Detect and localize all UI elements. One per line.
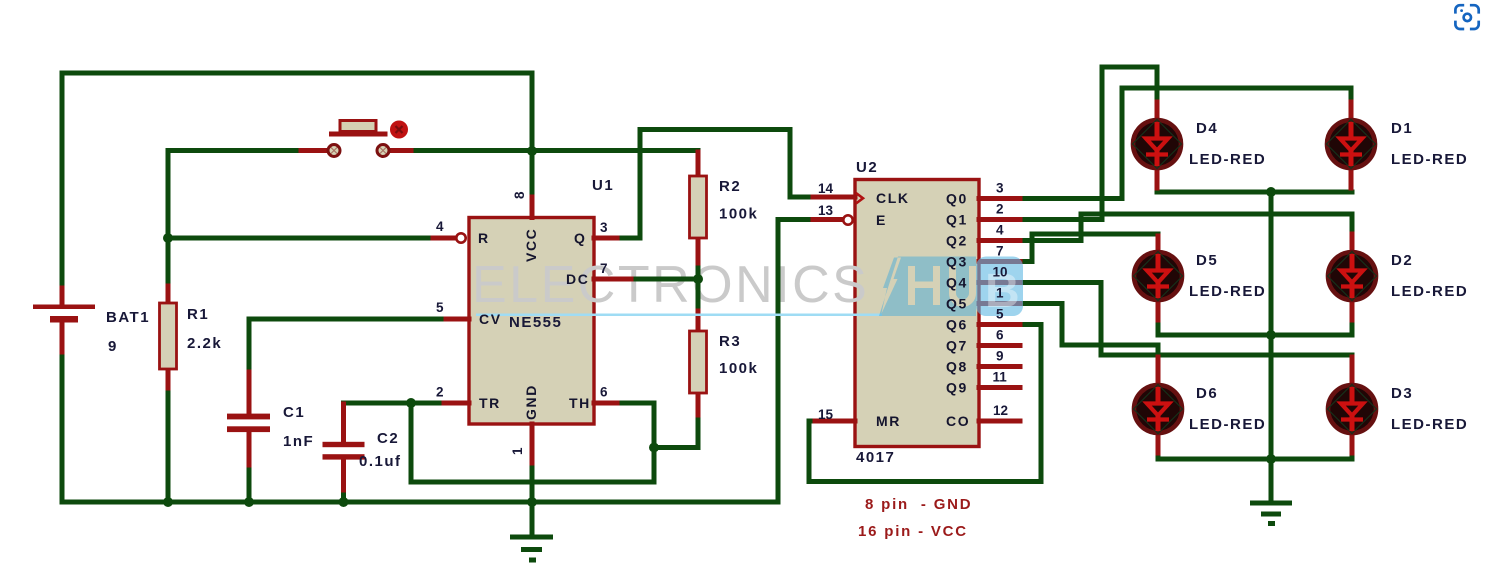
- svg-text:9: 9: [108, 338, 118, 355]
- wire D2 cathode to row2 bus: [1350, 318, 1355, 335]
- wire TR junction down and right to TH junction: [411, 403, 654, 482]
- svg-text:VCC: VCC: [523, 228, 539, 262]
- pin stub 4017 pin2 Q1: [979, 217, 1020, 222]
- ground under 555: [510, 535, 553, 563]
- wire 555 pin6 TH to junction: [616, 403, 654, 448]
- pin stub D2 anode: [1350, 234, 1355, 252]
- svg-text:R2: R2: [719, 178, 741, 195]
- wire 555 pin2 TR to C2 top: [344, 403, 446, 406]
- pin stub R3 top: [696, 311, 701, 331]
- wire R1 bottom to bus: [166, 386, 171, 502]
- svg-text:CLK: CLK: [876, 190, 910, 206]
- svg-text:4: 4: [436, 219, 444, 234]
- svg-text:16 pin - VCC: 16 pin - VCC: [858, 523, 968, 540]
- 4017 CLK edge triangle: [856, 193, 863, 204]
- svg-text:2: 2: [436, 385, 444, 400]
- wire Q4 pin10 to D3 anode: [1019, 283, 1352, 370]
- wire VCC top rail from battery to 555: [62, 73, 532, 290]
- svg-text:D3: D3: [1391, 385, 1413, 402]
- svg-text:11: 11: [993, 370, 1008, 385]
- svg-text:C2: C2: [377, 430, 399, 447]
- wire LED row3 cathode bus: [1158, 457, 1352, 462]
- junction bus C2: [339, 497, 349, 507]
- svg-text:4: 4: [996, 223, 1004, 238]
- wire 555 pin3 Q up over to 4017 CLK: [616, 130, 814, 239]
- pin stub D5 anode: [1156, 236, 1161, 252]
- pin stub 4017 pin12 CO: [979, 419, 1020, 424]
- pin stub D1 anode: [1349, 102, 1354, 120]
- svg-text:R: R: [478, 230, 490, 246]
- svg-text:D1: D1: [1391, 120, 1413, 137]
- pin stub 4017 pin5 Q6: [979, 322, 1020, 327]
- pin stub D3 cathode: [1350, 433, 1355, 453]
- wire C2 bottom to bus: [341, 489, 346, 502]
- pin stub battery minus: [60, 322, 65, 352]
- svg-text:E: E: [876, 212, 887, 228]
- svg-text:2: 2: [996, 202, 1004, 217]
- svg-text:14: 14: [818, 181, 834, 196]
- pin stub C1 top: [247, 372, 252, 415]
- pin stub R1 bottom: [166, 368, 171, 388]
- pin stub button left: [301, 148, 327, 153]
- svg-text:LED-RED: LED-RED: [1189, 151, 1266, 168]
- pin stub D6 cathode: [1156, 433, 1161, 453]
- wire VCC node to R2 top: [532, 151, 698, 177]
- pin stub 555 pin1 GND: [530, 424, 535, 463]
- screenshot icon top right: [1455, 5, 1478, 29]
- svg-text:7: 7: [600, 261, 608, 276]
- svg-text:D4: D4: [1196, 120, 1218, 137]
- svg-text:5: 5: [436, 300, 444, 315]
- pin stub D6 anode: [1156, 357, 1161, 385]
- svg-text:LED-RED: LED-RED: [1391, 283, 1468, 300]
- wire D1 cathode to row1 bus: [1349, 186, 1354, 192]
- svg-text:100k: 100k: [719, 206, 758, 223]
- 555 pin4 R inversion bubble: [456, 233, 465, 242]
- junction LED row2: [1266, 330, 1276, 340]
- pin stub R3 bottom: [696, 393, 701, 415]
- pin stub 4017 pin10 Q4: [979, 280, 1020, 285]
- junction TH/R3 node: [649, 443, 659, 453]
- resistor R3: [690, 331, 707, 393]
- svg-text:100k: 100k: [719, 360, 758, 377]
- svg-text:3: 3: [996, 181, 1004, 196]
- pin stub button right: [390, 148, 411, 153]
- pin stub 4017 pin7 Q3: [979, 259, 1020, 264]
- wire 4017 MR pin15 loop to Q6 pin5: [809, 325, 1041, 482]
- wire reset node to 555 pin 4: [168, 236, 434, 241]
- svg-text:Q: Q: [574, 230, 587, 246]
- pin stub 4017 pin14 CLK: [813, 195, 855, 200]
- LED D1: [1327, 120, 1376, 169]
- pin stub 555 pin8 VCC: [530, 197, 535, 218]
- wire R3 bottom to TH junction: [654, 413, 698, 448]
- pin stub 4017 pin6 Q7: [979, 343, 1020, 348]
- svg-text:13: 13: [818, 203, 834, 218]
- pin stub 555 pin2 TR: [444, 401, 469, 406]
- watermark ELECTRONICS: [472, 256, 869, 314]
- svg-text:7: 7: [996, 244, 1004, 259]
- pin stub R1 top: [166, 286, 171, 304]
- resistor R1: [160, 303, 177, 369]
- svg-text:TR: TR: [479, 395, 501, 411]
- svg-text:R3: R3: [719, 333, 741, 350]
- pin stub C2 bottom: [341, 458, 346, 490]
- pin stub 555 pin7 DC: [594, 277, 631, 282]
- svg-text:4017: 4017: [856, 449, 895, 466]
- svg-text:Q3: Q3: [946, 254, 968, 270]
- pin stub D2 cathode: [1350, 300, 1355, 320]
- svg-text:Q2: Q2: [946, 233, 968, 249]
- svg-text:R1: R1: [187, 306, 209, 323]
- pin stub 4017 pin9 Q8: [979, 364, 1020, 369]
- svg-text:Q9: Q9: [946, 380, 968, 396]
- svg-text:D6: D6: [1196, 385, 1218, 402]
- svg-text:1: 1: [510, 447, 525, 455]
- junction TR node: [406, 398, 416, 408]
- svg-text:15: 15: [818, 407, 834, 422]
- wire LED center ground drop: [1269, 192, 1274, 502]
- pin stub battery plus: [60, 288, 65, 306]
- svg-text:DC: DC: [566, 271, 589, 287]
- svg-text:8 pin - GND: 8 pin - GND: [865, 496, 972, 513]
- wire C1 bottom to bus: [247, 463, 252, 502]
- wire Q2 pin4 to D2 anode: [1019, 214, 1352, 241]
- pin stub 4017 pin15 MR: [815, 419, 855, 424]
- svg-text:6: 6: [600, 385, 608, 400]
- SECTION: watermark logo: [476, 257, 1023, 319]
- svg-text:NE555: NE555: [509, 314, 562, 331]
- pin stub 4017 pin3 Q0: [979, 196, 1020, 201]
- svg-text:LED-RED: LED-RED: [1189, 416, 1266, 433]
- pin stub 4017 pin4 Q2: [979, 238, 1020, 243]
- svg-text:Q6: Q6: [946, 317, 968, 333]
- pushbutton red actuator marker: [390, 121, 408, 139]
- svg-text:Q1: Q1: [946, 212, 968, 228]
- svg-text:Q8: Q8: [946, 359, 968, 375]
- svg-text:ELECTRONICS: ELECTRONICS: [472, 256, 869, 314]
- svg-text:BAT1: BAT1: [106, 309, 150, 326]
- wire Q1 pin2 to D4 anode: [1019, 67, 1157, 220]
- svg-text:Q4: Q4: [946, 275, 968, 291]
- svg-text:LED-RED: LED-RED: [1189, 283, 1266, 300]
- SECTION: labels: [106, 120, 1468, 540]
- pin stub D4 cathode: [1155, 168, 1160, 188]
- battery BAT1: [33, 305, 95, 323]
- svg-text:LED-RED: LED-RED: [1391, 151, 1468, 168]
- svg-text:Q7: Q7: [946, 338, 968, 354]
- pin stub 4017 pin13 E: [813, 217, 843, 222]
- svg-text:LED-RED: LED-RED: [1391, 416, 1468, 433]
- pin stub 4017 pin11 Q9: [979, 385, 1020, 390]
- resistor R2: [690, 176, 707, 238]
- pin stub C2 top: [341, 404, 346, 443]
- wire 555 pin1 GND to ground: [530, 461, 535, 535]
- LED D2: [1328, 252, 1377, 301]
- wire battery minus to ground bus: [62, 351, 778, 502]
- wire D6 cathode to row3 bus: [1156, 451, 1161, 459]
- LED D6: [1134, 385, 1183, 434]
- junction DC/R2/R3 node: [693, 274, 703, 284]
- wire VCC down to 555 pin 8: [530, 151, 535, 199]
- wire Q0 pin3 to D1 anode: [1019, 88, 1351, 199]
- LED D3: [1328, 385, 1377, 434]
- svg-text:1nF: 1nF: [283, 433, 314, 450]
- pin stub D5 cathode: [1156, 300, 1161, 320]
- pin stub R2 top: [696, 152, 701, 177]
- svg-text:D5: D5: [1196, 252, 1218, 269]
- svg-text:3: 3: [600, 220, 608, 235]
- wire D4 cathode to row1 bus: [1155, 186, 1160, 192]
- svg-text:8: 8: [512, 191, 527, 199]
- watermark HUB B box: [976, 257, 1023, 317]
- pin stub 4017 pin1 Q5: [979, 301, 1020, 306]
- junction VCC/button node: [527, 146, 537, 156]
- svg-text:CV: CV: [479, 311, 502, 327]
- counter U2 4017 body: [855, 180, 979, 447]
- pin stub 555 pin4 R: [433, 236, 456, 241]
- pushbutton: [328, 121, 389, 157]
- LED D5: [1134, 252, 1183, 301]
- junction LED row3: [1266, 454, 1276, 464]
- svg-text:U1: U1: [592, 177, 614, 194]
- SECTION: wires: [62, 67, 1352, 535]
- svg-text:Q0: Q0: [946, 191, 968, 207]
- pin stub D4 anode: [1155, 102, 1160, 120]
- wire D5 cathode to row2 bus: [1156, 318, 1161, 335]
- watermark HUB bolt and HU panel: [879, 257, 976, 317]
- svg-text:TH: TH: [569, 395, 591, 411]
- junction bus 555 GND: [527, 497, 537, 507]
- svg-text:GND: GND: [523, 384, 539, 420]
- wire DC node down to R3 top: [696, 279, 701, 313]
- pin stub 555 pin3 Q: [594, 236, 617, 241]
- svg-text:9: 9: [996, 349, 1004, 364]
- svg-text:D2: D2: [1391, 252, 1413, 269]
- svg-text:6: 6: [996, 328, 1004, 343]
- watermark underline: [476, 314, 882, 317]
- junction bus C1: [244, 497, 254, 507]
- svg-text:5: 5: [996, 307, 1004, 322]
- svg-text:C1: C1: [283, 404, 305, 421]
- capacitor C1: [227, 414, 270, 432]
- junction LED row1: [1266, 187, 1276, 197]
- svg-text:CO: CO: [946, 413, 970, 429]
- wire button right to VCC junction: [409, 148, 532, 153]
- wire 555 pin7 DC to R2/R3 node: [630, 277, 698, 282]
- pin stub D3 anode: [1350, 357, 1355, 385]
- wire LED row2 cathode bus: [1158, 333, 1352, 338]
- pin stub 555 pin5 CV: [446, 317, 469, 322]
- pin stub C1 bottom: [247, 432, 252, 466]
- pin stub D1 cathode: [1349, 168, 1354, 188]
- wire R2 bottom to DC node: [696, 262, 701, 279]
- svg-text:1: 1: [996, 286, 1004, 301]
- svg-text:2.2k: 2.2k: [187, 335, 222, 352]
- LED D4: [1133, 120, 1182, 169]
- svg-text:MR: MR: [876, 413, 901, 429]
- junction bus R1: [163, 497, 173, 507]
- 4017 pin13 E inversion bubble: [843, 215, 852, 224]
- wire Q5 pin1 to D6 anode: [1019, 304, 1158, 360]
- op-amp U1 NE555 body: [469, 218, 594, 425]
- capacitor C2: [323, 442, 365, 460]
- svg-text:0.1uf: 0.1uf: [359, 453, 402, 470]
- svg-text:U2: U2: [856, 159, 878, 176]
- svg-text:Q5: Q5: [946, 296, 968, 312]
- wire button left to reset node: [168, 151, 303, 239]
- wire 555 pin5 CV to C1 top: [249, 319, 447, 374]
- svg-text:10: 10: [993, 265, 1008, 280]
- wire D3 cathode to row3 bus: [1350, 451, 1355, 459]
- svg-text:12: 12: [993, 403, 1008, 418]
- wire reset node down to R1 top: [166, 238, 171, 288]
- junction reset node: [163, 233, 173, 243]
- ground under LEDs: [1250, 501, 1292, 527]
- wire LED row1 cathode bus: [1157, 190, 1352, 195]
- pin stub R2 bottom: [696, 238, 701, 263]
- wire ground bus up to 4017 pin13 E: [778, 220, 814, 503]
- wire Q3 pin7 to D5 anode: [1019, 234, 1158, 262]
- pin stub 555 pin6 TH: [594, 401, 617, 406]
